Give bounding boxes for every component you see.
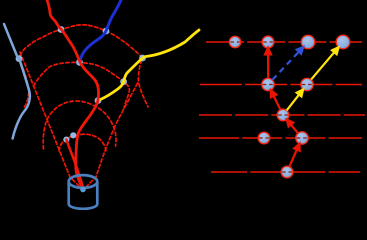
dot: blue crosses A1 <box>103 28 110 35</box>
arrow (287,172)->(302,138) <box>289 150 297 167</box>
dot: blue merges red on A2 <box>76 59 83 66</box>
arc A4 (dashed time-slice) <box>59 134 106 151</box>
arc A1 (outer dashed time-slice) <box>19 25 148 107</box>
red arrow chain <box>265 48 300 167</box>
dot: red crosses A1 <box>58 26 65 33</box>
dot: A1 meets light blue worldline <box>16 55 23 62</box>
left cone edge E1 <box>20 52 81 188</box>
dot inside cylinder <box>80 187 86 193</box>
arc A3 (dashed time-slice) <box>43 101 116 149</box>
arrow (268,84.5)->(268,42) <box>267 54 269 78</box>
cylinder walls <box>67 182 70 205</box>
dot: yellow crosses A1 <box>139 55 146 62</box>
nodes <box>229 35 350 178</box>
event dots on left panel <box>16 26 146 143</box>
dot: yellow crosses A2 <box>120 78 127 85</box>
yellow arrows <box>287 47 339 110</box>
horizontal worldlines <box>199 42 365 172</box>
arrow (307,84.5)->(343,42) <box>311 52 334 79</box>
cylinder top rim <box>69 175 98 188</box>
arrow (283,115)->(268,84.5) <box>274 96 281 110</box>
dot: yellow merges red on A3 <box>95 97 102 104</box>
arc A2 (dashed time-slice) <box>34 62 130 108</box>
yellow photon path from right <box>98 30 199 101</box>
light blue galaxy worldline (far left) <box>4 24 30 139</box>
blue dashed arrow (268,84.5)->(308,42) <box>272 47 303 80</box>
arrow (283,115)->(307,84.5) <box>287 95 299 111</box>
red branch to twin events <box>66 140 83 189</box>
cylinder bottom <box>69 204 98 209</box>
cylinder detector <box>69 175 98 209</box>
red main worldline / light path <box>47 0 99 189</box>
right cone edge E2 <box>86 83 138 188</box>
blue photon path from top <box>80 0 121 62</box>
dashes across nodes <box>231 42 313 172</box>
twin dots near A4 <box>63 137 69 143</box>
arrow (302,138)->(283,115) <box>291 125 298 134</box>
